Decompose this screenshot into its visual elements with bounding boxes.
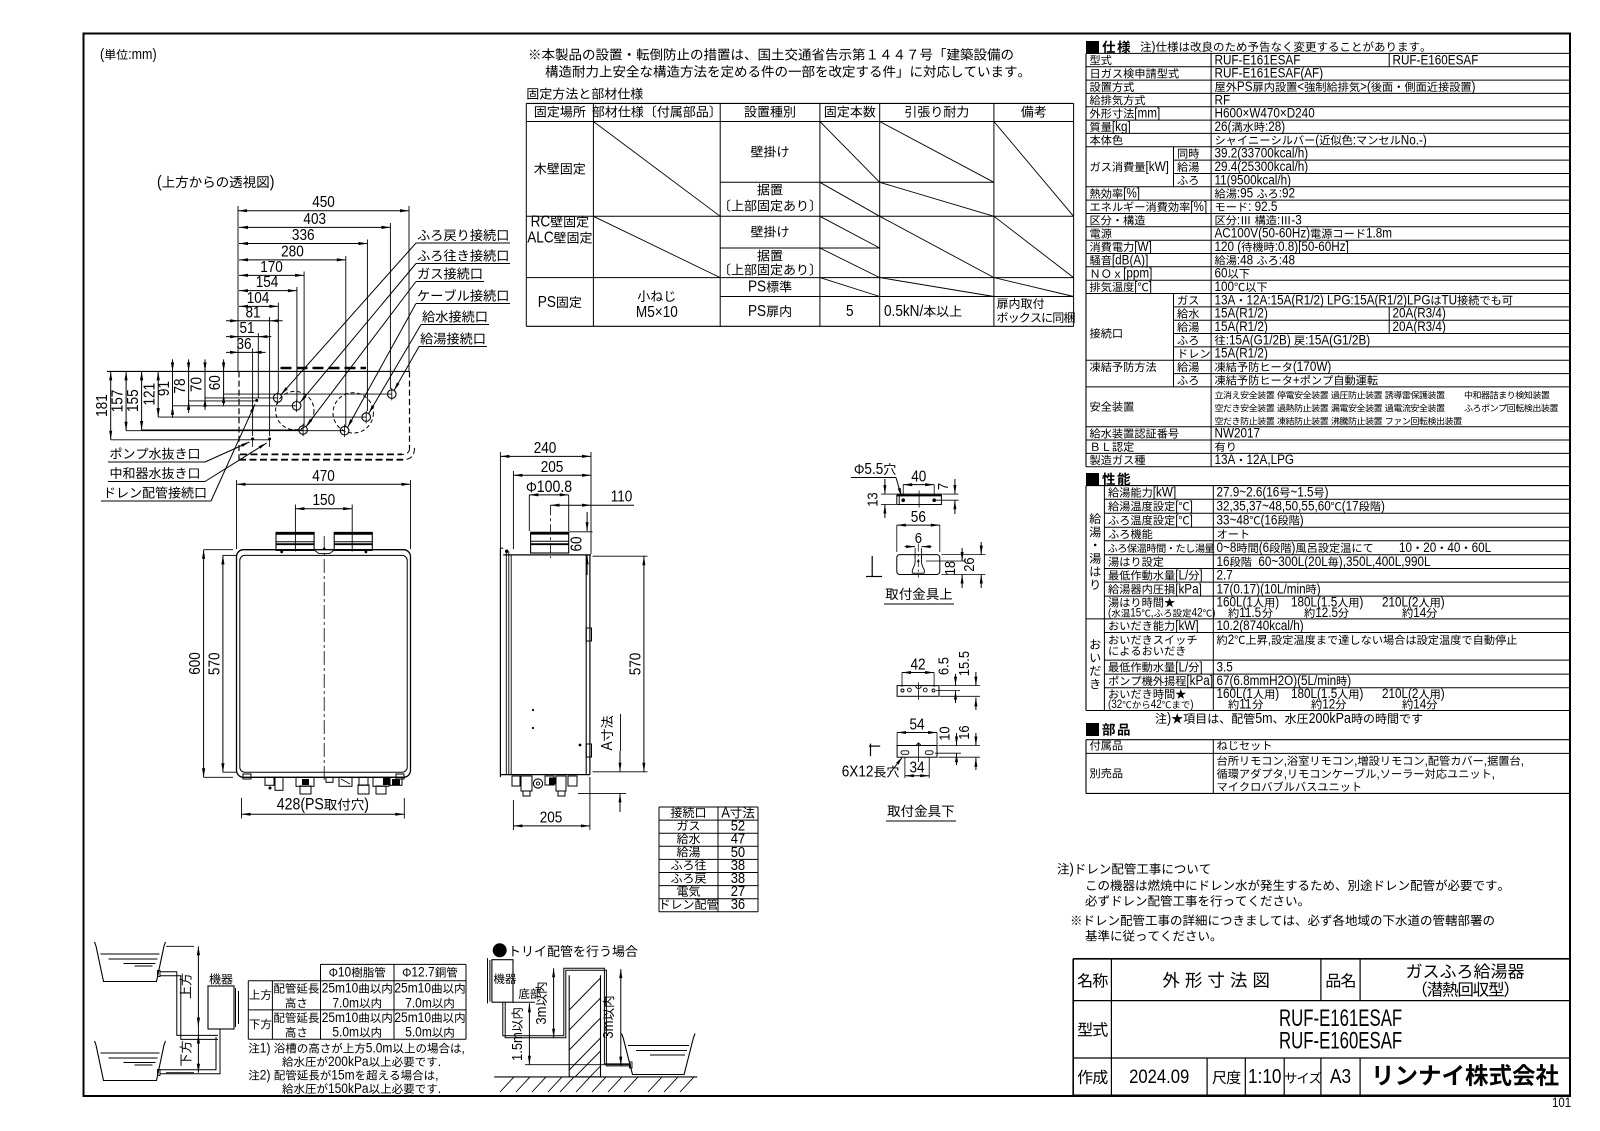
label gas: [418, 268, 429, 279]
svg-text:13: 13: [864, 492, 881, 507]
side view dim phi100.8: [527, 482, 536, 493]
parts heading: [1086, 723, 1099, 736]
svg-text:5.0m: 5.0m: [332, 1024, 359, 1040]
front view dim 470: [237, 483, 411, 485]
kiki unit box: [208, 986, 234, 1029]
svg-text:92.5: 92.5: [1255, 198, 1278, 214]
spec table heading: [1086, 41, 1099, 54]
svg-text:60: 60: [207, 375, 224, 390]
svg-text:[%]: [%]: [1190, 198, 1207, 214]
svg-text:101: 101: [1552, 1095, 1571, 1110]
lower bracket dim 42: [902, 672, 934, 674]
svg-text:(16: (16: [1261, 512, 1278, 528]
svg-text:54: 54: [910, 717, 925, 734]
svg-text::: :: [1248, 198, 1251, 214]
svg-text:100.8: 100.8: [537, 478, 572, 496]
label pump drain: [110, 447, 121, 459]
svg-text:6.5: 6.5: [935, 657, 952, 675]
svg-text:): ): [1472, 78, 1476, 94]
svg-text:(: (: [100, 46, 105, 62]
dim 104: [239, 305, 278, 307]
front view dim 570: [222, 555, 224, 772]
front view dim 150: [295, 508, 352, 510]
svg-text:): ): [1300, 512, 1304, 528]
product notice text: [530, 50, 540, 60]
svg-text:NW2017: NW2017: [1215, 425, 1261, 441]
front view dim 428: [242, 813, 405, 815]
svg-text:26: 26: [960, 557, 977, 572]
upper bracket dim 18: [961, 548, 963, 561]
side view dim 240: [500, 455, 591, 457]
svg-text:12A,LPG: 12A,LPG: [1247, 451, 1295, 467]
svg-text:40: 40: [1447, 539, 1460, 555]
teibu label: [519, 988, 530, 999]
svg-text:150kPa: 150kPa: [328, 1080, 369, 1096]
dim 78: [188, 359, 190, 413]
svg-text:,: ,: [1484, 752, 1487, 768]
svg-text:No.-): No.-): [1401, 131, 1427, 147]
dim 91: [172, 359, 174, 417]
svg-text:205: 205: [540, 810, 563, 827]
svg-text:(: (: [1108, 607, 1112, 620]
svg-text:[kW]: [kW]: [1153, 484, 1176, 500]
svg-text:[kPa]: [kPa]: [1175, 580, 1202, 596]
top view wall line: [107, 370, 410, 372]
dim 51: [226, 336, 271, 338]
torii dim 3m left: [553, 968, 555, 1038]
side view dim 205 bottom: [513, 825, 590, 827]
svg-text:5: 5: [846, 303, 854, 320]
svg-text:,: ,: [1425, 752, 1428, 768]
svg-text:): ): [1381, 498, 1385, 514]
svg-text:,: ,: [1268, 631, 1271, 647]
top view flue circles dashed: [276, 391, 314, 429]
svg-text:16: 16: [955, 725, 972, 740]
svg-text:(: (: [157, 173, 163, 191]
side view bottom fittings: [512, 776, 520, 786]
svg-text:2: 2: [1228, 631, 1235, 647]
label furo-modori: [418, 230, 430, 241]
svg-text:56: 56: [911, 509, 926, 526]
svg-text:91: 91: [156, 381, 173, 396]
svg-text:[: [: [1134, 278, 1138, 294]
A dimension table: [659, 806, 758, 808]
performance heading: [1086, 473, 1099, 486]
svg-text:[kPa]: [kPa]: [1186, 672, 1213, 688]
dim 121: [157, 371, 159, 417]
performance group labels: [1090, 513, 1101, 524]
upper bracket top view: [897, 494, 942, 504]
svg-text:(17: (17: [1342, 498, 1359, 514]
svg-text:10: 10: [936, 726, 953, 741]
svg-text:,: ,: [1521, 752, 1524, 768]
svg-text:120: 120: [1215, 238, 1235, 254]
svg-text:18: 18: [941, 561, 958, 576]
dim 170: [239, 274, 304, 276]
svg-text:,: ,: [462, 1040, 465, 1056]
svg-text:PS: PS: [748, 303, 766, 320]
upper bracket dim 13: [884, 479, 886, 494]
svg-text:[kg]: [kg]: [1112, 118, 1131, 134]
lower bracket dim 15.5: [975, 672, 977, 686]
svg-text:11: 11: [1239, 696, 1251, 712]
svg-text:A: A: [721, 804, 730, 821]
performance table: [1086, 485, 1570, 487]
lower bracket dim 6.5: [955, 674, 957, 686]
upper bracket dim 26: [980, 542, 982, 555]
svg-text:200kPa: 200kPa: [1309, 710, 1352, 726]
svg-text:150: 150: [313, 492, 336, 509]
front view dim 600: [203, 550, 205, 778]
svg-text:M5×10: M5×10: [636, 304, 678, 321]
svg-text:): ): [1347, 672, 1351, 688]
svg-text:+: +: [1293, 372, 1300, 388]
front view bottom fittings: [265, 777, 274, 785]
svg-text:36: 36: [731, 895, 746, 912]
upper bracket hole label: [855, 464, 864, 474]
svg-text:60L: 60L: [1472, 539, 1492, 555]
svg-text:428(PS: 428(PS: [277, 796, 324, 814]
bath piping lower: [160, 1037, 216, 1070]
lower bracket dim 16: [975, 733, 977, 746]
svg-text:7.0m: 7.0m: [332, 994, 359, 1010]
svg-text:RC: RC: [531, 214, 551, 231]
fixing table: [526, 102, 1073, 104]
svg-text:36: 36: [237, 336, 252, 353]
svg-text:): ): [1275, 685, 1279, 701]
label drain pipe: [107, 487, 114, 498]
svg-text:12.7: 12.7: [411, 964, 434, 980]
dim 450: [238, 210, 409, 212]
piping length table: [321, 963, 467, 965]
svg-text:PS: PS: [538, 294, 556, 311]
torii dim 3m right: [620, 969, 622, 1066]
svg-text:34: 34: [910, 760, 925, 777]
svg-text:5m: 5m: [1255, 710, 1272, 726]
lower bracket dim 10: [956, 733, 958, 746]
dim 36: [226, 351, 266, 353]
svg-text::92: :92: [1279, 185, 1295, 201]
upper bracket dim 6: [905, 546, 916, 548]
svg-text:): ): [1167, 710, 1171, 726]
torii dim 1.5m: [528, 1003, 530, 1064]
drain note: [1057, 863, 1069, 874]
torii piping title: [493, 943, 507, 957]
torii ground: [494, 1076, 697, 1078]
svg-text:.: .: [438, 1080, 441, 1096]
svg-text:,: ,: [1284, 765, 1287, 781]
dim 70: [204, 359, 206, 410]
performance note: [1155, 713, 1166, 724]
bath upper tub: [96, 946, 164, 982]
svg-text:5.5: 5.5: [864, 461, 883, 478]
lower bracket caption: [887, 805, 900, 817]
svg-text:15.5: 15.5: [955, 651, 972, 676]
lower bracket front view: [897, 746, 937, 758]
top view wall dashed: [281, 367, 367, 370]
svg-text:240: 240: [534, 440, 557, 457]
svg-text:51: 51: [240, 320, 255, 337]
dim 81: [226, 320, 283, 322]
title block: [1073, 958, 1570, 960]
svg-text:2024.09: 2024.09: [1129, 1066, 1189, 1087]
dim 336: [239, 243, 367, 245]
upper bracket dim 7: [954, 479, 956, 494]
spec table labels: [1090, 55, 1100, 65]
label kyuto: [420, 332, 433, 344]
svg-text:336: 336: [292, 227, 315, 244]
dim 280: [239, 259, 346, 261]
svg-text:1.5m: 1.5m: [508, 1032, 525, 1061]
torii wall hatched: [569, 975, 600, 1077]
svg-text:600: 600: [187, 652, 204, 675]
parts table: [1086, 739, 1570, 741]
svg-text:ALC: ALC: [527, 230, 554, 247]
svg-text::48: :48: [1237, 252, 1253, 268]
svg-text:15A(R1/2): 15A(R1/2): [1215, 345, 1268, 361]
front view flue pipes: [276, 532, 314, 550]
dim 155: [141, 371, 143, 430]
side view dim 60: [586, 512, 588, 531]
fixing table diagonals: [820, 122, 880, 183]
svg-text:154: 154: [256, 274, 279, 291]
svg-text:470: 470: [312, 468, 335, 485]
svg-text:[mm]: [mm]: [1134, 105, 1160, 121]
svg-text:6X12: 6X12: [842, 764, 874, 781]
svg-text:PS: PS: [1237, 78, 1253, 94]
svg-text:78: 78: [172, 378, 189, 393]
side view body: [499, 548, 501, 777]
piping notes: [249, 1043, 260, 1053]
svg-text:PS: PS: [748, 279, 766, 296]
svg-text:42: 42: [911, 657, 926, 674]
title block texts: [1078, 973, 1092, 988]
svg-text:81: 81: [246, 304, 261, 321]
side view dim 110: [551, 504, 635, 506]
svg-text:7.0m: 7.0m: [405, 994, 432, 1010]
svg-text:): ): [1275, 594, 1279, 610]
svg-text:<: <: [1297, 78, 1304, 94]
svg-text::15A(G1/2B): :15A(G1/2B): [1305, 332, 1370, 348]
svg-text:42: 42: [1151, 699, 1162, 712]
svg-text:570: 570: [207, 652, 224, 675]
svg-text:3m: 3m: [532, 1007, 549, 1025]
svg-text:): ): [1441, 594, 1445, 610]
svg-text:0.5kN/: 0.5kN/: [884, 303, 924, 320]
svg-text:1): 1): [260, 1040, 271, 1056]
svg-text:60~300L(20L: 60~300L(20L: [1258, 553, 1327, 569]
svg-text:14: 14: [1413, 604, 1426, 620]
svg-text:,: ,: [1354, 752, 1357, 768]
svg-text:): ): [1212, 607, 1215, 620]
svg-text:110: 110: [611, 489, 633, 506]
svg-text:]: ]: [1190, 512, 1193, 528]
lower bracket top view: [897, 686, 939, 697]
dim 154: [239, 290, 297, 292]
svg-text:70: 70: [189, 377, 206, 392]
performance rows: [1108, 487, 1119, 497]
svg-text:A: A: [599, 741, 616, 750]
side view dim 205 top: [513, 474, 591, 476]
lower bracket dim 34: [905, 775, 929, 777]
drain points: [251, 437, 254, 440]
svg-text:2): 2): [260, 1067, 271, 1083]
label neutralizer drain: [111, 467, 121, 479]
svg-text:570: 570: [628, 653, 645, 676]
upper bracket dim 56: [897, 524, 940, 526]
svg-text:,: ,: [1377, 765, 1380, 781]
dim kamiho: [197, 946, 199, 1026]
svg-text:[kW]: [kW]: [1175, 617, 1198, 633]
label furo-yuki: [418, 250, 430, 261]
svg-text:7: 7: [934, 483, 951, 490]
upper bracket caption: [886, 588, 899, 600]
svg-text:10: 10: [338, 964, 351, 980]
svg-text:]: ]: [1149, 278, 1152, 294]
top view body outline dashed: [238, 371, 240, 459]
svg-text:5.0m: 5.0m: [405, 1024, 432, 1040]
bath lower tub: [96, 1045, 164, 1081]
svg-text:13A: 13A: [1215, 451, 1236, 467]
label kyusui: [422, 310, 435, 322]
torii bathtub: [623, 1038, 693, 1075]
svg-text:A3: A3: [1330, 1065, 1351, 1088]
svg-text:60: 60: [569, 536, 586, 551]
svg-text:26(: 26(: [1215, 118, 1233, 134]
svg-text:12.5: 12.5: [1315, 604, 1338, 620]
svg-text:RUF-E161ESAF(AF): RUF-E161ESAF(AF): [1215, 65, 1324, 81]
svg-text:155: 155: [125, 389, 142, 412]
svg-text::mm): :mm): [128, 46, 156, 62]
upper bracket front view: [897, 555, 940, 575]
upper bracket datum mark: [871, 556, 873, 577]
svg-text:,: ,: [1151, 607, 1154, 620]
side view dim A: [619, 751, 621, 772]
svg-text:RUF-E160ESAF: RUF-E160ESAF: [1393, 51, 1479, 67]
svg-text:[kW]: [kW]: [1146, 158, 1169, 174]
svg-text:): ): [1152, 38, 1156, 54]
bath piping upper: [160, 972, 218, 1036]
upper bracket dim 40: [903, 484, 934, 486]
svg-text:): ): [1360, 594, 1364, 610]
svg-text::28): :28): [1265, 118, 1285, 134]
svg-text:): ): [1070, 860, 1074, 877]
svg-text:): ): [270, 173, 275, 191]
svg-text:450: 450: [312, 194, 335, 211]
svg-text::: :: [1353, 131, 1356, 147]
svg-text:403: 403: [303, 211, 326, 228]
svg-text:3m: 3m: [599, 1021, 616, 1039]
svg-text:),350L,400L,990L: ),350L,400L,990L: [1339, 553, 1431, 569]
dim shimoho: [197, 1035, 199, 1073]
svg-text:): ): [1360, 685, 1364, 701]
torii kiki box: [492, 960, 513, 1003]
dim 60: [223, 359, 225, 406]
svg-text:20A(R3/4): 20A(R3/4): [1393, 318, 1446, 334]
dim 157: [125, 371, 127, 430]
front view body: [237, 550, 411, 778]
connection ports: [273, 394, 282, 403]
svg-text:33~48: 33~48: [1217, 512, 1250, 528]
svg-text::48: :48: [1279, 252, 1295, 268]
svg-text:5.0m: 5.0m: [366, 1040, 393, 1056]
svg-text:14: 14: [1413, 696, 1426, 712]
label cable: [418, 290, 429, 301]
svg-text:(: (: [1315, 131, 1320, 147]
svg-text:205: 205: [541, 459, 564, 476]
svg-text:,: ,: [1492, 765, 1495, 781]
torii pipe: [503, 968, 631, 1064]
svg-text:1:10: 1:10: [1248, 1065, 1281, 1088]
svg-text:>(: >(: [1360, 78, 1371, 94]
svg-text:280: 280: [281, 244, 304, 261]
svg-text:): ): [364, 796, 369, 814]
lower bracket dim 54: [897, 732, 937, 734]
svg-text:): ): [1441, 685, 1445, 701]
svg-text:): ): [1190, 699, 1193, 712]
side view dim 570: [643, 556, 645, 772]
svg-text:1.8m: 1.8m: [1366, 225, 1392, 241]
svg-text:15: 15: [1130, 607, 1141, 620]
dim 181: [110, 371, 112, 439]
svg-text:RUF-E160ESAF: RUF-E160ESAF: [1279, 1028, 1402, 1055]
svg-text:(32: (32: [1108, 699, 1122, 712]
fixing table title: [527, 88, 538, 99]
svg-text:40: 40: [911, 469, 926, 486]
svg-text:[%]: [%]: [1123, 185, 1140, 201]
spec table: [1086, 52, 1570, 54]
front view center line: [323, 536, 325, 781]
svg-text:[: [: [1175, 512, 1179, 528]
fixing table texts: [535, 106, 546, 117]
lower bracket datum mark: [869, 745, 880, 747]
dim 403: [239, 226, 390, 228]
side view flue pipe: [531, 532, 569, 553]
